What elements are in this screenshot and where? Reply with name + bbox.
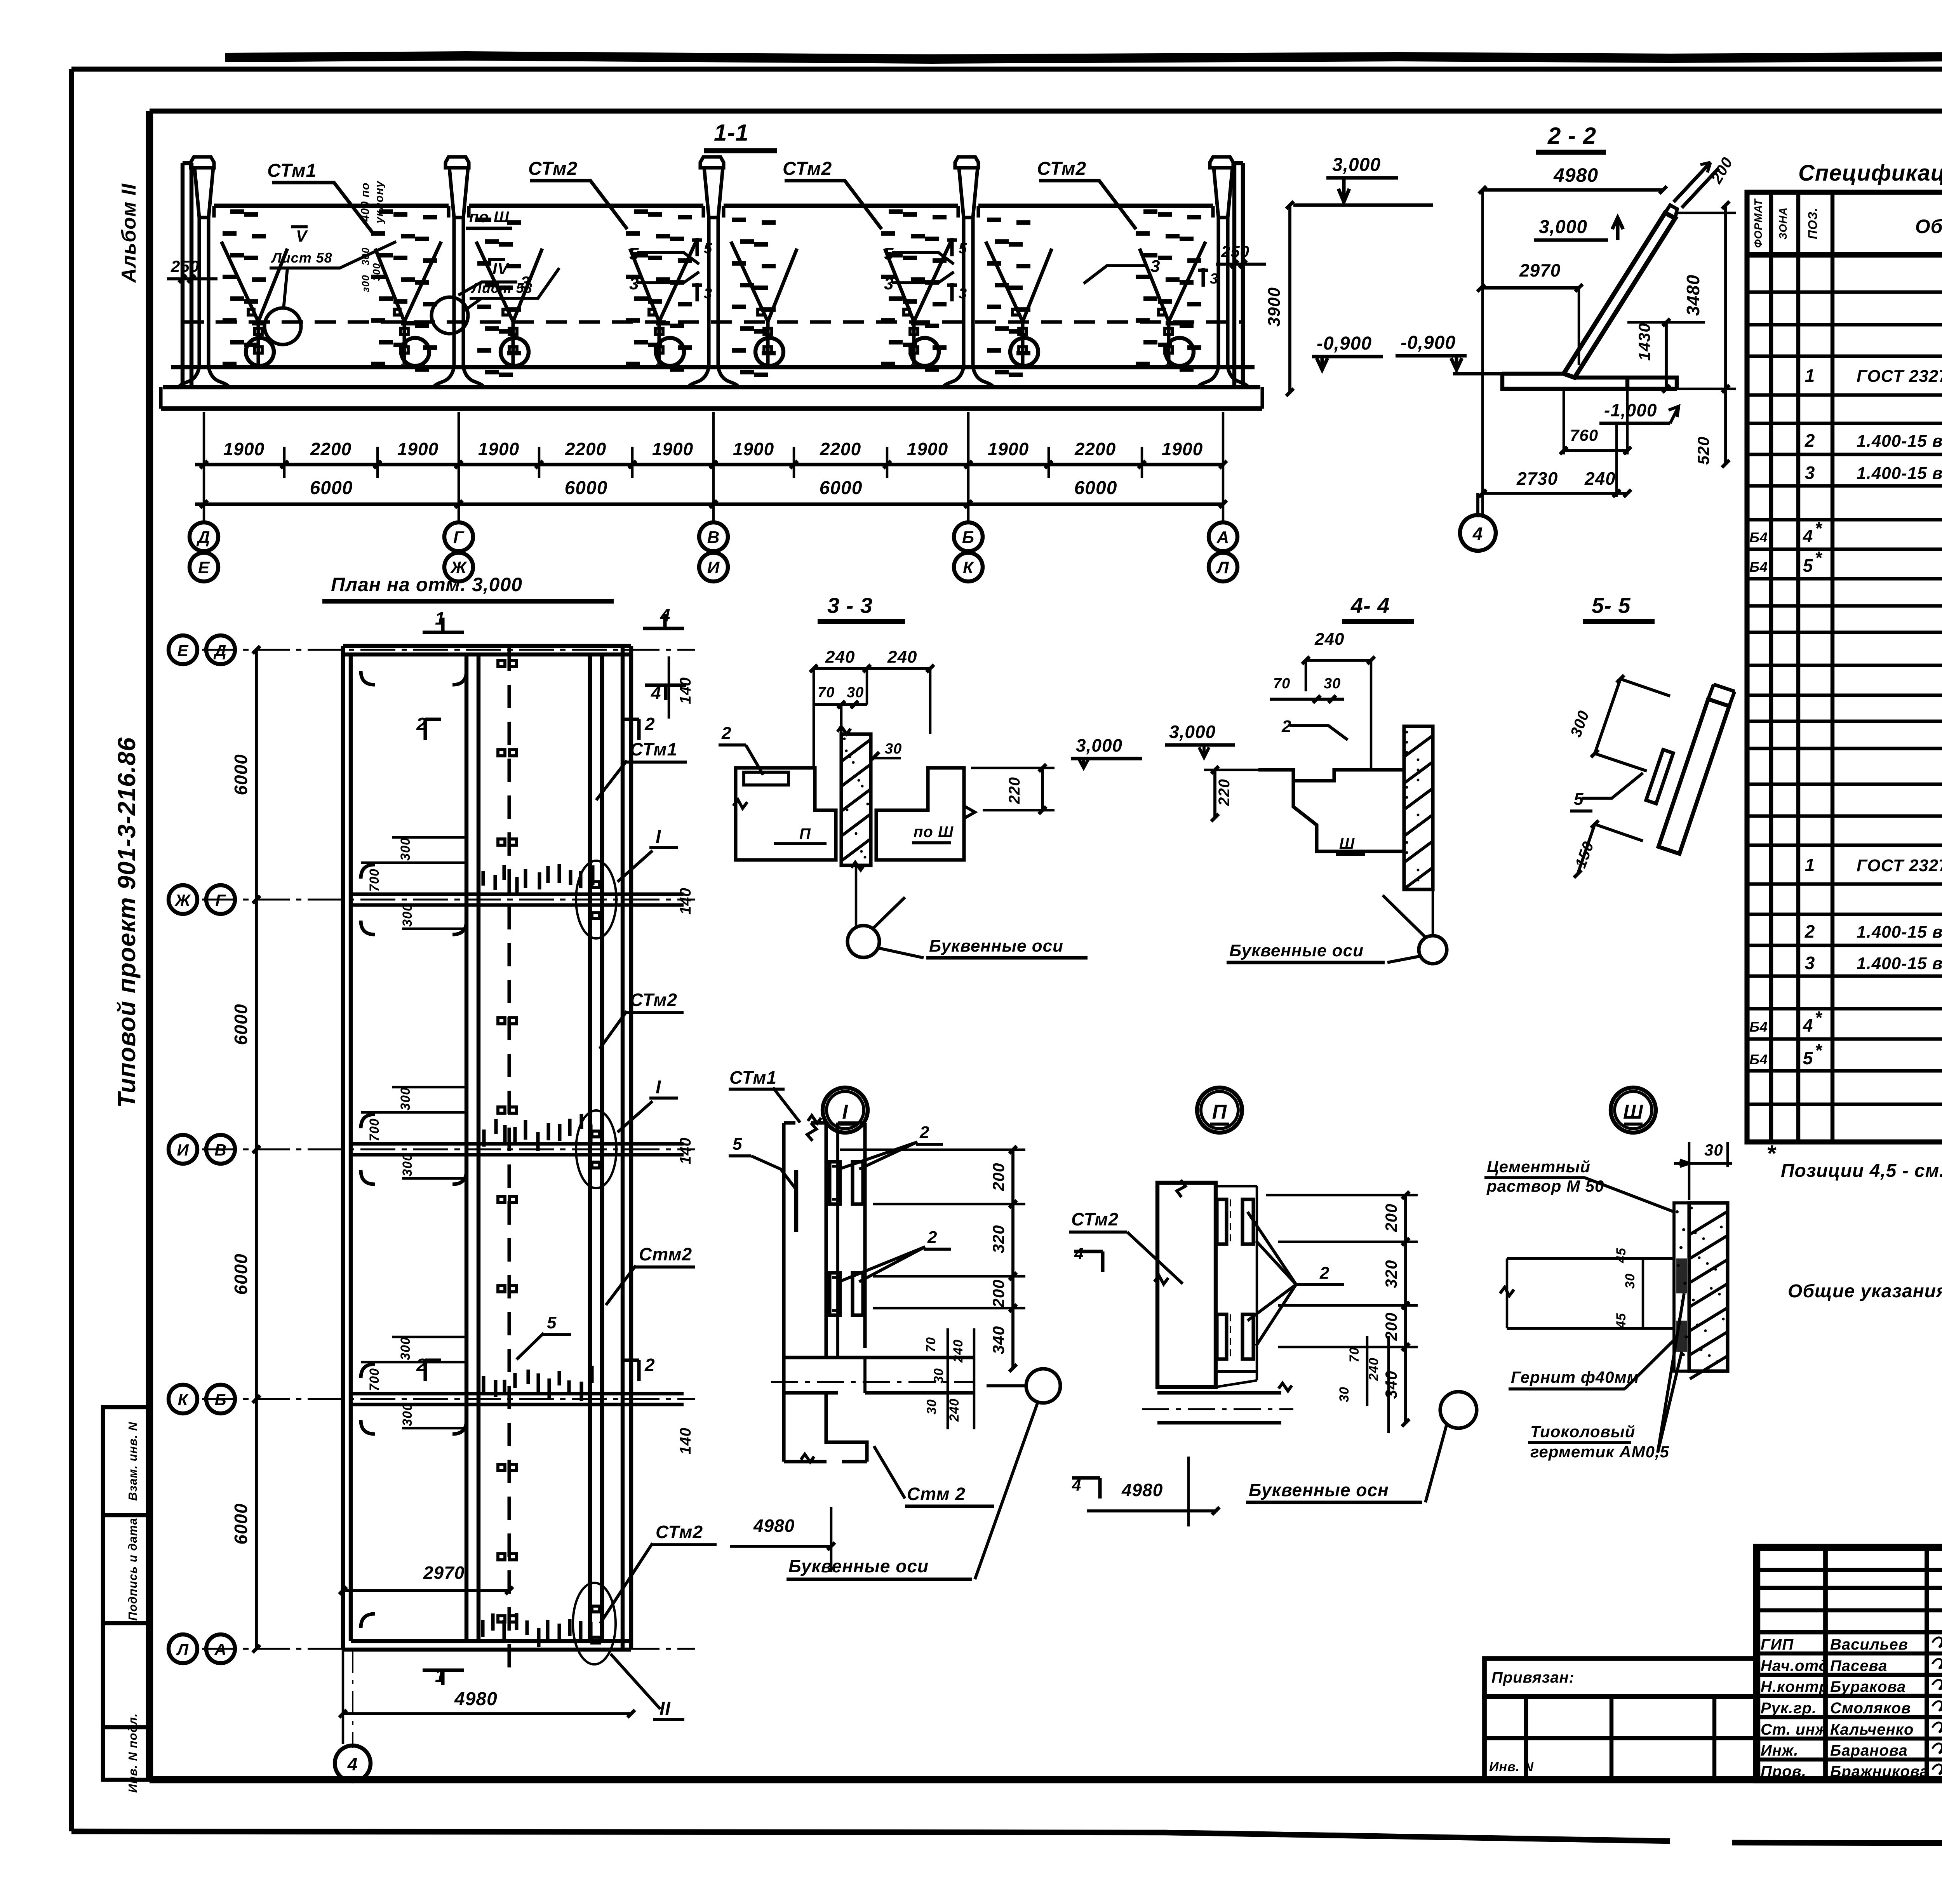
svg-text:3: 3 [520,273,530,292]
svg-text:-0,900: -0,900 [1317,333,1372,354]
svg-text:Инв. N подл.: Инв. N подл. [126,1713,139,1793]
svg-text:6000: 6000 [231,1004,251,1045]
svg-text:Типовой проект 901-3-216.86: Типовой проект 901-3-216.86 [113,737,141,1108]
svg-text:3,000: 3,000 [1332,155,1381,175]
svg-text:45: 45 [1614,1248,1629,1264]
svg-text:Кальченко: Кальченко [1830,1721,1914,1738]
svg-text:1900: 1900 [988,439,1029,459]
plan axis bubble 4 [335,1746,371,1781]
svg-text:Стм 2: Стм 2 [907,1484,966,1504]
detail I wall body [784,1123,826,1462]
svg-text:Л: Л [176,1640,189,1659]
svg-text:А: А [214,1640,226,1659]
svg-text:5: 5 [959,240,967,257]
svg-text:СТм2: СТм2 [528,158,578,179]
svg-text:200: 200 [1382,1312,1400,1341]
svg-text:Г: Г [216,891,226,909]
svg-text:6000: 6000 [231,1503,251,1544]
svg-text:Взам. инв. N: Взам. инв. N [126,1422,139,1501]
detail I dim column right [1011,1150,1015,1368]
detail II axes circle [1440,1392,1477,1428]
svg-text:200: 200 [1382,1203,1400,1232]
svg-text:320: 320 [989,1225,1008,1253]
4-4 slab block [1258,770,1404,851]
svg-text:1-1: 1-1 [714,120,749,146]
svg-text:300: 300 [1567,708,1592,740]
svg-text:Ж: Ж [174,891,191,909]
wall column at axis 1 [191,157,214,168]
plan outer walls [343,646,631,654]
svg-text:30: 30 [931,1368,946,1384]
section 1-1 dimension row 2 [195,502,1223,506]
svg-text:Б4: Б4 [1749,1019,1768,1035]
svg-text:П: П [1212,1101,1227,1123]
svg-text:140: 140 [677,1427,694,1455]
plan detail ovals [576,861,616,938]
svg-text:30: 30 [847,684,864,701]
svg-text:70: 70 [1347,1347,1362,1363]
svg-text:1900: 1900 [733,439,774,459]
svg-text:6000: 6000 [565,478,608,498]
svg-text:4- 4: 4- 4 [1350,593,1390,618]
svg-text:45: 45 [1614,1313,1629,1329]
privyazan box [1484,1659,1757,1697]
svg-text:1.400-15 вып.1: 1.400-15 вып.1 [1857,432,1942,451]
svg-text:140: 140 [677,888,694,915]
detail II wall body [1157,1183,1216,1387]
plan inner longitudinal walls [466,654,479,1641]
4-4 letter-axes circle [1419,936,1447,964]
embedded circle at wall2 [432,297,468,334]
svg-text:2: 2 [1805,921,1815,942]
svg-text:2: 2 [644,714,655,734]
section cut marks 5 and 3 at wall 4 [947,238,957,256]
svg-text:ФОРМАТ: ФОРМАТ [1752,198,1764,248]
svg-text:400 по: 400 по [359,182,372,222]
svg-text:Инв. N: Инв. N [1489,1760,1534,1774]
svg-text:30: 30 [1324,675,1341,692]
svg-text:Инж.: Инж. [1761,1742,1799,1759]
svg-text:3: 3 [1150,257,1160,276]
svg-text:Б4: Б4 [1749,559,1768,575]
svg-text:Пасева: Пасева [1830,1657,1887,1674]
detail II floor slab [1157,1393,1281,1423]
3-3 joint wall hatched [841,734,871,865]
svg-text:2: 2 [919,1123,929,1142]
svg-text:6000: 6000 [310,478,353,498]
plan plate marks at detail ovals [592,882,600,888]
svg-text:3,000: 3,000 [1076,735,1122,755]
svg-text:з00: з00 [360,275,371,292]
svg-text:Е: Е [177,641,189,660]
inner border [150,108,1942,113]
sheet top scan edge line [225,56,1942,59]
svg-text:4980: 4980 [1121,1480,1163,1500]
svg-text:3: 3 [1805,463,1815,483]
svg-text:ГОСТ 23279-78: ГОСТ 23279-78 [1857,367,1942,386]
svg-text:4: 4 [1472,524,1483,544]
drain circles [246,338,274,366]
svg-text:240: 240 [951,1339,966,1363]
3-3 letter-axes circle [847,926,879,957]
svg-text:200: 200 [989,1163,1008,1191]
svg-text:Д: Д [213,641,226,660]
svg-text:250: 250 [171,257,199,275]
2-2 base slab [1502,374,1677,389]
svg-text:Л: Л [1216,558,1229,577]
svg-text:Спецификация: Спецификация [1798,160,1942,186]
svg-text:30: 30 [885,741,902,757]
svg-text:Позиции 4,5 - см. ведо: Позиции 4,5 - см. ведомость деталей на л… [1781,1161,1942,1181]
svg-text:300: 300 [400,1153,415,1177]
spec table grid [1747,192,1942,1142]
svg-text:700: 700 [367,1118,382,1142]
svg-text:План на отм. 3,000: План на отм. 3,000 [331,574,522,595]
svg-text:И: И [707,558,720,577]
svg-text:I: I [656,827,661,847]
detail I embedded plates [830,1162,840,1204]
svg-text:300: 300 [398,1337,413,1360]
svg-text:Общие указания приведены: Общие указания приведены на листе 4. [1788,1281,1942,1302]
svg-text:300: 300 [398,837,413,861]
svg-text:*: * [1815,1008,1823,1028]
title block left grid [1823,1547,1828,1780]
svg-text:Б: Б [215,1391,227,1409]
svg-text:Ш: Ш [1623,1101,1643,1123]
detail bubble Ш [1611,1088,1656,1133]
svg-text:300: 300 [371,263,382,281]
svg-text:Буракова: Буракова [1830,1678,1906,1695]
title block outline [1757,1547,1942,1780]
svg-text:4980: 4980 [454,1689,498,1709]
inventory box [1484,1697,1757,1780]
wall column at axis 5 [1210,157,1233,168]
svg-text:К: К [963,558,974,577]
svg-text:5: 5 [547,1313,557,1332]
svg-text:Нач.отд: Нач.отд [1761,1657,1829,1674]
svg-text:6000: 6000 [231,754,251,795]
svg-text:70: 70 [924,1337,938,1352]
svg-text:4: 4 [1074,1244,1084,1263]
plan axis dash-dot lines [202,649,695,651]
svg-text:ГИП: ГИП [1761,1636,1794,1653]
svg-text:Б4: Б4 [1749,529,1768,545]
svg-text:I: I [842,1101,848,1123]
detail II embedded plates [1217,1199,1227,1244]
plan 6000 dims [255,650,258,1649]
svg-text:СТм2: СТм2 [656,1522,703,1542]
svg-text:6000: 6000 [1074,478,1117,498]
2-2 axis bubble 4 [1460,515,1496,551]
svg-text:2: 2 [721,724,731,743]
svg-text:2970: 2970 [1519,260,1561,280]
svg-text:30: 30 [924,1399,939,1415]
plan cross walls at axes [351,894,684,905]
svg-text:Пров.: Пров. [1761,1763,1806,1780]
detail II panel strip [1216,1186,1257,1387]
svg-text:2970: 2970 [423,1563,465,1583]
svg-text:Б4: Б4 [1749,1051,1768,1067]
svg-text:А: А [1216,528,1230,547]
svg-text:3480: 3480 [1683,275,1703,316]
detail I right panel line [863,1123,867,1358]
water top lines [214,204,449,208]
2-2 sloped wall [1564,213,1675,378]
svg-text:4: 4 [347,1754,358,1774]
svg-text:по Ш: по Ш [914,823,954,841]
svg-text:2200: 2200 [310,439,352,459]
svg-text:I: I [656,1077,661,1098]
wall column at axis 2 [445,157,469,168]
svg-text:70: 70 [1273,675,1290,692]
detail I floor slab [784,1358,974,1393]
svg-text:6000: 6000 [231,1253,251,1295]
svg-text:К: К [178,1391,189,1409]
stamp boxes [103,1407,150,1780]
svg-text:6000: 6000 [820,478,863,498]
svg-text:4: 4 [1803,1015,1813,1036]
2-2 axis line dashdot [1482,190,1483,517]
detail I axes circle [1026,1369,1060,1403]
plan center dashed axis [508,648,511,1673]
svg-text:Б: Б [962,528,974,547]
svg-text:320: 320 [1382,1260,1400,1288]
5-5 inclined plate [1646,750,1673,804]
svg-text:1.400-15 вып.1: 1.400-15 вып.1 [1857,922,1942,942]
detail III sealant strips [1674,1203,1689,1371]
svg-text:ЗОНА: ЗОНА [1777,207,1789,240]
svg-text:1: 1 [1805,365,1815,386]
svg-text:по Ш: по Ш [469,209,509,226]
svg-text:-1,000: -1,000 [1604,400,1657,420]
svg-text:200: 200 [1708,154,1736,186]
svg-text:Д: Д [196,528,211,547]
svg-text:760: 760 [1570,426,1598,444]
svg-text:Гернит ф40мм: Гернит ф40мм [1511,1368,1639,1386]
svg-text:Подпись и дата: Подпись и дата [126,1518,139,1620]
svg-text:2: 2 [1805,430,1815,451]
mid dashed line [183,320,1243,324]
svg-text:СТм2: СТм2 [783,158,832,179]
svg-text:2200: 2200 [1074,439,1116,459]
svg-text:герметик АМ0,5: герметик АМ0,5 [1530,1443,1669,1461]
svg-text:СТм2: СТм2 [1071,1209,1119,1229]
svg-text:СТм1: СТм1 [267,160,317,181]
svg-text:300: 300 [400,1403,415,1426]
svg-text:П: П [799,825,811,842]
svg-text:уклону: уклону [373,181,386,224]
svg-text:1430: 1430 [1635,323,1653,360]
svg-text:2: 2 [927,1228,937,1247]
svg-text:СТм2: СТм2 [630,990,677,1010]
svg-text:Г: Г [453,528,465,547]
svg-text:240: 240 [1314,630,1344,649]
svg-text:Е: Е [198,558,210,577]
section cut marks 5 and 3 at wall 3 [692,238,702,256]
svg-text:1: 1 [1805,855,1815,875]
svg-text:Рук.гр.: Рук.гр. [1761,1700,1817,1717]
svg-text:Баранова: Баранова [1830,1742,1908,1759]
plan bay corner fillets [361,671,375,685]
svg-text:ГОСТ 23279-78: ГОСТ 23279-78 [1857,856,1942,875]
svg-text:3,000: 3,000 [1539,217,1587,237]
svg-text:IV: IV [492,259,510,278]
svg-text:340: 340 [989,1326,1008,1354]
svg-text:СТм2: СТм2 [1037,158,1086,179]
svg-text:В: В [707,528,720,547]
wall column at axis 3 [700,157,724,168]
svg-text:3: 3 [704,285,712,302]
svg-text:340: 340 [1382,1370,1400,1399]
svg-text:4980: 4980 [1553,164,1598,186]
svg-text:220: 220 [1216,779,1233,806]
svg-text:4: 4 [1803,526,1813,546]
plan embedded plate marks on center line [498,660,505,667]
svg-text:200: 200 [989,1279,1008,1308]
section 1-1 dimension row 1 [195,463,1223,466]
svg-text:5: 5 [1803,1048,1813,1068]
svg-text:140: 140 [677,1137,694,1164]
svg-text:Привязан:: Привязан: [1491,1669,1575,1686]
svg-text:Ст. инж: Ст. инж [1761,1721,1828,1738]
svg-text:Бражникова: Бражникова [1830,1763,1929,1780]
svg-text:240: 240 [1584,468,1616,489]
svg-text:В: В [214,1141,226,1159]
detail bubble I [823,1088,868,1133]
svg-text:5: 5 [733,1135,742,1154]
detail II dim column right [1404,1195,1407,1423]
svg-text:*: * [1815,1040,1823,1060]
svg-text:250: 250 [1221,242,1249,261]
svg-text:5- 5: 5- 5 [1592,593,1631,618]
3-3 left slab block [736,768,836,860]
svg-text:1900: 1900 [397,439,439,459]
outer side walls [183,163,191,385]
svg-text:И: И [177,1141,189,1159]
2-2 wall top 200 arrows [1674,162,1719,208]
svg-text:220: 220 [1006,777,1023,804]
svg-text:Цементный: Цементный [1487,1157,1590,1176]
svg-text:240: 240 [1366,1358,1381,1381]
plan tick hatches mid bays [483,864,593,1647]
svg-text:Буквенные оси: Буквенные оси [929,936,1063,955]
svg-text:II: II [660,1699,671,1719]
svg-text:Тиоколовый: Тиоколовый [1530,1422,1635,1441]
svg-text:4980: 4980 [753,1516,795,1536]
svg-text:2200: 2200 [820,439,861,459]
svg-text:Буквенные осн: Буквенные осн [1249,1480,1389,1500]
4-4 joint wall hatched [1404,726,1433,889]
bottom slab [171,365,1255,369]
5-5 inclined bar [1658,699,1729,854]
svg-text:Альбом II: Альбом II [118,183,140,284]
svg-text:Лист 58: Лист 58 [271,250,332,266]
svg-text:СТм1: СТм1 [630,739,677,759]
svg-text:1900: 1900 [1162,439,1203,459]
svg-text:1900: 1900 [223,439,265,459]
svg-text:Смоляков: Смоляков [1830,1700,1911,1717]
svg-text:300: 300 [398,1087,413,1110]
svg-text:1900: 1900 [907,439,948,459]
svg-text:ПОЗ.: ПОЗ. [1806,207,1820,239]
svg-text:3 - 3: 3 - 3 [827,593,873,618]
detail III wall hatched [1689,1203,1728,1371]
svg-text:2: 2 [644,1355,655,1375]
svg-text:240: 240 [887,647,917,667]
svg-text:3,000: 3,000 [1169,722,1216,742]
section 1-1 axis bubbles [190,522,218,551]
svg-text:140: 140 [677,677,694,704]
svg-text:*: * [1815,548,1823,568]
svg-text:2: 2 [1319,1264,1329,1283]
svg-text:240: 240 [825,647,855,667]
svg-text:Обозначение: Обозначение [1915,216,1942,237]
Y-bracket supports [221,242,287,364]
svg-text:Ш: Ш [1339,835,1355,852]
svg-text:Буквенные оси: Буквенные оси [1229,941,1364,960]
section cut mark 3 at wall 5 [1198,268,1208,287]
svg-text:Буквенные оси: Буквенные оси [788,1556,929,1576]
detail bubble П [1197,1088,1242,1133]
svg-text:1.400-15 вып.1: 1.400-15 вып.1 [1857,954,1942,973]
detail I lower block [784,1393,867,1462]
svg-text:5: 5 [1803,555,1813,576]
svg-text:2 - 2: 2 - 2 [1547,123,1596,149]
svg-text:240: 240 [947,1398,962,1422]
svg-text:3900: 3900 [1265,287,1284,327]
svg-text:30: 30 [1623,1273,1637,1289]
svg-text:5: 5 [704,240,712,257]
plan right wall double [623,646,631,1650]
svg-text:300: 300 [400,903,415,927]
svg-text:*: * [1815,518,1823,538]
svg-text:30: 30 [1704,1141,1723,1159]
water hatch dashes [223,212,1201,375]
svg-text:1900: 1900 [652,439,693,459]
svg-text:3: 3 [959,285,967,302]
svg-text:СТм1: СТм1 [729,1067,777,1088]
plan axis bubbles [169,635,197,664]
svg-text:2730: 2730 [1516,468,1558,489]
wall column at axis 4 [955,157,978,168]
svg-text:V: V [296,227,308,245]
svg-text:70: 70 [818,684,835,701]
svg-text:700: 700 [367,1368,382,1391]
svg-text:*: * [1766,1140,1777,1166]
svg-text:-0,900: -0,900 [1401,332,1456,353]
outer frame [71,66,1942,71]
svg-text:Н.контр: Н.контр [1761,1678,1829,1695]
svg-text:1900: 1900 [478,439,519,459]
3-3 right slab block [876,768,964,860]
signatures [1932,1638,1942,1647]
svg-text:3: 3 [1805,953,1815,973]
svg-text:Васильев: Васильев [1830,1636,1908,1653]
svg-text:2200: 2200 [565,439,606,459]
svg-text:700: 700 [367,868,382,892]
detail I break marks [808,1116,821,1123]
svg-text:Стм2: Стм2 [639,1244,692,1264]
svg-text:3: 3 [1210,271,1218,287]
svg-text:520: 520 [1694,436,1712,465]
svg-text:30: 30 [1337,1387,1352,1402]
svg-text:1.400-15 вып.1: 1.400-15 вып.1 [1857,464,1942,483]
